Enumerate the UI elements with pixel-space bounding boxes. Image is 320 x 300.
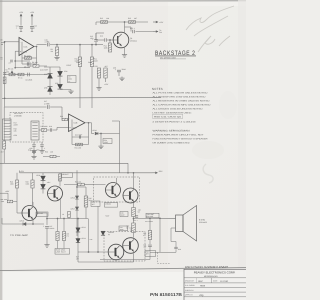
wire after CR10 [99, 133, 120, 135]
svg-text:P/N 8150117B: P/N 8150117B [150, 292, 182, 297]
svg-text:Q1: Q1 [130, 37, 132, 40]
capacitor C19 [47, 129, 50, 131]
wire after C17 [50, 106, 62, 108]
diode CR16 [75, 196, 78, 199]
svg-text:2N6594: 2N6594 [108, 231, 114, 234]
svg-text:RWB: RWB [200, 285, 206, 288]
wire speaker drop [159, 218, 161, 252]
svg-text:R22: R22 [95, 65, 98, 68]
resistor R12 on rail [101, 21, 108, 24]
diode CR17 [75, 207, 78, 210]
resistor R16 left edge [3, 107, 5, 141]
capacitor C8 feedback [36, 58, 38, 64]
wire driver net [16, 188, 18, 213]
ground R9 [56, 56, 58, 58]
resistor R7 [18, 73, 24, 76]
wire output to speaker [134, 217, 176, 219]
wire bias column lower [77, 219, 79, 253]
capacitor C40 supply [117, 69, 121, 71]
resistor R49 [148, 231, 151, 240]
svg-text:4.7/50: 4.7/50 [45, 41, 50, 44]
wire mid columns [57, 219, 59, 232]
wire R10 R11 stems [79, 45, 81, 57]
thermal sensor box [91, 201, 100, 206]
svg-text:1/50: 1/50 [90, 37, 93, 40]
resistor R19 [41, 129, 47, 132]
svg-text:TO PRE AMP: TO PRE AMP [10, 234, 29, 237]
wire long horizontal separator [2, 96, 161, 99]
svg-text:CR9: CR9 [14, 134, 17, 137]
resistor R36 [56, 232, 59, 241]
ground R22 [98, 86, 100, 88]
label C31 box [119, 226, 128, 231]
svg-text:REVISED 5/26/83 PWP: REVISED 5/26/83 PWP [185, 266, 228, 269]
capacitor C15 output [125, 26, 132, 28]
wire base Q1 [107, 39, 114, 41]
svg-text:CR16: CR16 [71, 196, 75, 199]
svg-text:ALL CAPACITORS IN MFD UNLESS N: ALL CAPACITORS IN MFD UNLESS NOTED [153, 104, 212, 107]
svg-text:-: - [20, 41, 21, 44]
wire Q1 emitter to ground [124, 47, 126, 53]
svg-text:C39: C39 [113, 67, 116, 70]
wire supply stems [20, 19, 22, 26]
wire bias column [76, 170, 78, 192]
ground C40 [121, 77, 123, 79]
ground C20 [33, 146, 35, 149]
svg-text:R50 C41 CR20 Q6: R50 C41 CR20 Q6 [154, 116, 182, 119]
svg-text:MERIDIAN,MS.: MERIDIAN,MS. [204, 275, 219, 278]
op-amp U1A [19, 38, 34, 56]
svg-text:C8 47PF: C8 47PF [24, 65, 31, 68]
resistor R45 emitter [133, 219, 135, 223]
svg-text:DRAWN BY: DRAWN BY [185, 280, 195, 283]
op-amp U1B [69, 114, 86, 132]
resistor R6 feedback [25, 57, 32, 60]
svg-text:U1A: U1A [24, 45, 29, 48]
resistor R35 [85, 187, 87, 196]
wire cap stems [20, 28, 22, 31]
svg-text:RWF: RWF [198, 280, 204, 283]
wire into U1B minus [68, 119, 69, 121]
resistor R34 [78, 183, 85, 186]
resistor R31 [7, 200, 13, 203]
wire after C16 [50, 44, 96, 46]
svg-text:JWy: JWy [199, 294, 204, 297]
capacitor C36 [174, 246, 177, 248]
svg-text:4K7: 4K7 [105, 65, 108, 68]
svg-text:+41V: +41V [19, 170, 24, 173]
reverb unit dashed box [10, 113, 43, 143]
diode CR13 [76, 228, 80, 232]
resistor R9 [56, 44, 58, 46]
ground Q1 [124, 53, 126, 55]
node input [4, 41, 6, 43]
capacitor C14 base [104, 38, 106, 41]
reverb transducer connector B [31, 121, 39, 140]
title block box [184, 269, 248, 300]
svg-text:ALL POTS ARE LINEAR UNLESS NOT: ALL POTS ARE LINEAR UNLESS NOTED [153, 92, 209, 95]
wire 240R line B [91, 67, 93, 109]
resistor R24 [103, 139, 112, 144]
wire q3 emitter down [32, 219, 34, 224]
svg-text:R8 10K: R8 10K [32, 61, 39, 64]
diode CR14 [76, 239, 80, 243]
capacitor C40a [135, 215, 138, 217]
power +15V arrow right [153, 21, 158, 23]
label C38 box [146, 213, 159, 218]
svg-text:OR DUMMY LOAD CONNECTED: OR DUMMY LOAD CONNECTED [153, 142, 190, 145]
svg-text:R26: R26 [45, 151, 48, 154]
svg-text:R13: R13 [128, 17, 131, 20]
wire output stage top [133, 173, 135, 189]
node output [133, 217, 135, 219]
svg-text:SPEAKER: SPEAKER [199, 221, 208, 224]
output dashed box upper [94, 177, 140, 202]
wire driver outputs [37, 212, 47, 214]
faint smudges [192, 141, 224, 159]
svg-text:CR4: CR4 [64, 70, 67, 73]
svg-text:R6 100K: R6 100K [24, 55, 31, 58]
capacitor C11 [19, 25, 23, 27]
svg-text:4K7: 4K7 [1, 150, 4, 153]
capacitor C18 supply [32, 150, 36, 152]
svg-text:POWER AMPLIFIER CIRCUIT WILL N: POWER AMPLIFIER CIRCUIT WILL NOT [153, 134, 205, 137]
svg-text:4K7: 4K7 [134, 17, 137, 20]
speaker [176, 215, 184, 232]
ground bridge [59, 88, 61, 91]
transistor Q6 output low [123, 238, 139, 254]
svg-text:.1: .1 [16, 27, 17, 30]
wire U1B output [89, 122, 92, 124]
diode CR7 [48, 74, 53, 79]
diode CR19 [23, 222, 26, 225]
resistor R8 upper [33, 65, 39, 67]
resistor R28 [16, 173, 18, 180]
wire rect column A [49, 67, 51, 95]
wire top rail Q1 [95, 22, 97, 25]
paper background [0, 0, 246, 300]
wire +41V rail [20, 172, 134, 174]
capacitor C9 [27, 73, 29, 77]
transistor Q2 driver [48, 186, 63, 201]
svg-text:CR11: CR11 [36, 174, 40, 177]
diode CR10 [95, 132, 98, 135]
svg-text:CR7: CR7 [44, 73, 47, 76]
svg-text:ALL DIODES 1N4148 UNLESS NOTED: ALL DIODES 1N4148 UNLESS NOTED [153, 108, 204, 111]
wire rect column B [59, 67, 61, 84]
power arrow REV [153, 172, 158, 174]
diode CR15 [101, 231, 105, 235]
resistor R27 row [50, 155, 56, 157]
diode CR11 [42, 173, 44, 175]
faint swirl watermark [203, 164, 213, 183]
resistor R14 bias [109, 39, 111, 41]
svg-text:C.B. CHECK: C.B. CHECK [185, 284, 196, 287]
capacitor C34 [148, 244, 152, 246]
wire U1A output [37, 44, 47, 46]
title block dividers [211, 278, 213, 283]
capacitor C20 gnd [33, 142, 35, 144]
wire +40V stub [0, 192, 8, 194]
svg-text:FUNCTION PROPERLY WITHOUT A SP: FUNCTION PROPERLY WITHOUT A SPEAKER [153, 138, 208, 141]
resistor R22 [97, 68, 100, 78]
scan right edge shading [238, 0, 246, 300]
transistor Q4 output [106, 183, 121, 198]
svg-text:ALL RESISTORS 1/4W UNLESS NOTE: ALL RESISTORS 1/4W UNLESS NOTED [153, 96, 207, 99]
power +15V arrow B [31, 14, 33, 19]
wire Q3 collector [32, 202, 34, 207]
svg-text:C17: C17 [44, 100, 47, 103]
svg-text:ALL RESISTORS IN OHMS UNLESS N: ALL RESISTORS IN OHMS UNLESS NOTED [153, 100, 211, 103]
power arrow to effects [153, 31, 158, 33]
wire eq row [5, 74, 50, 76]
wire ladder rung 2 [15, 67, 30, 69]
resistor R20 series [62, 118, 68, 120]
diode CR4 [58, 71, 63, 76]
schematic area wash [2, 2, 168, 270]
resistor R13 on rail [129, 21, 136, 24]
svg-text:CR8: CR8 [44, 86, 47, 89]
wire rev send line [134, 172, 153, 174]
wire reverb out [39, 129, 41, 131]
wire speaker bottom terminal [171, 227, 176, 229]
scan top edge line [0, 0, 246, 2]
scan left edge shading [0, 0, 2, 300]
resistor R11 divider [90, 57, 93, 67]
capacitor C12 [30, 25, 34, 27]
dashed corner lower right [158, 253, 171, 264]
wire bias to lower stage [88, 219, 90, 253]
svg-text:4558: 4558 [23, 51, 27, 54]
svg-text:CR5: CR5 [55, 82, 58, 85]
pencil handwriting top-right [186, 6, 234, 52]
ground C37 [46, 243, 48, 245]
capacitor C22 feedback [78, 135, 80, 138]
resistor R37 [62, 232, 65, 241]
diode CR8 [48, 87, 53, 92]
wire R22 R23 bottom [98, 78, 100, 86]
resistor R10 divider [78, 57, 81, 67]
power +15V arrow A [20, 14, 22, 19]
feedback wires U1B [85, 122, 89, 124]
wire to preamp row [2, 223, 44, 225]
wire left ladder A [4, 42, 6, 98]
wire speaker return [150, 251, 176, 253]
transistor Q7 output low [108, 244, 124, 260]
wire ladder rung 1 [15, 60, 30, 62]
svg-text:CHECK BY: CHECK BY [185, 289, 195, 292]
diode CR5 [58, 84, 63, 89]
svg-text:-: - [69, 118, 70, 121]
capacitor C13 coupling [95, 42, 97, 45]
svg-text:.1: .1 [34, 27, 35, 30]
svg-text:39/16: 39/16 [122, 68, 126, 71]
pilot lamp box [55, 249, 70, 255]
wire non-inverting input [15, 50, 19, 52]
svg-text:WARNING SERVICEMAN: WARNING SERVICEMAN [153, 129, 190, 132]
transistor Q1 [113, 32, 129, 48]
potentiometer R5 [9, 73, 15, 76]
resistor R3 ladder [3, 77, 6, 84]
resistor R23 [104, 68, 107, 78]
wire left ladder B [14, 51, 16, 67]
wire Q1 collector [124, 22, 126, 33]
transistor Q3 driver [22, 206, 37, 221]
svg-text:R21 15K: R21 15K [75, 146, 82, 149]
resistor R44 emitter [133, 201, 135, 208]
wire to U1B plus input [56, 128, 58, 131]
svg-text:APPR. BY: APPR. BY [185, 294, 194, 297]
resistor R21 feedback [88, 137, 90, 145]
svg-text:8 OHM: 8 OHM [199, 219, 205, 222]
capacitor C17 [47, 105, 49, 109]
svg-text:#70500B: #70500B [14, 115, 22, 118]
svg-text:11/17/80: 11/17/80 [220, 280, 229, 283]
title block row lines [184, 277, 246, 279]
diode CR12 [41, 184, 46, 189]
wire reverb send [5, 106, 47, 108]
wire C13 to base network [95, 33, 97, 40]
resistor R29 [32, 173, 34, 180]
wire down to rev send node [119, 121, 121, 173]
capacitor C37 [46, 219, 48, 226]
svg-text:4558: 4558 [73, 127, 77, 130]
capacitor C4 ladder [3, 72, 6, 74]
reverb transducer connector A [3, 119, 12, 140]
feedback loop wires U1A [34, 46, 37, 48]
wire inverting input [5, 41, 19, 43]
wire supply separator [0, 162, 128, 164]
svg-text:# DENOTES PATENT # 4,103,243: # DENOTES PATENT # 4,103,243 [153, 120, 197, 123]
svg-text:NOTES: NOTES [152, 87, 163, 91]
ground R24 [100, 134, 102, 145]
wire lower stage feed [78, 251, 108, 253]
wire 240R line A [79, 67, 81, 109]
svg-text:CR17: CR17 [71, 207, 75, 210]
transistor Q5 output [123, 188, 138, 203]
resistor R30 collector [59, 174, 62, 181]
capacitor C16 [47, 43, 49, 47]
resistor R50 box [145, 251, 156, 257]
capacitor C21 gnd [41, 142, 43, 144]
svg-text:R12: R12 [100, 17, 103, 20]
svg-text:CR18: CR18 [20, 219, 24, 222]
wire R49 branch [149, 218, 151, 230]
svg-text:PEAVEY ELECTRONICS CORP.: PEAVEY ELECTRONICS CORP. [194, 271, 236, 275]
output dashed box lower [104, 232, 145, 262]
ground C18 [33, 153, 35, 155]
svg-text:U1B: U1B [73, 122, 78, 125]
label 1N4003 box [68, 76, 77, 83]
scan bottom page edge [0, 268, 246, 271]
label C30 box [120, 212, 128, 217]
wire bottom bus [77, 252, 79, 262]
ground C21 [41, 146, 43, 149]
